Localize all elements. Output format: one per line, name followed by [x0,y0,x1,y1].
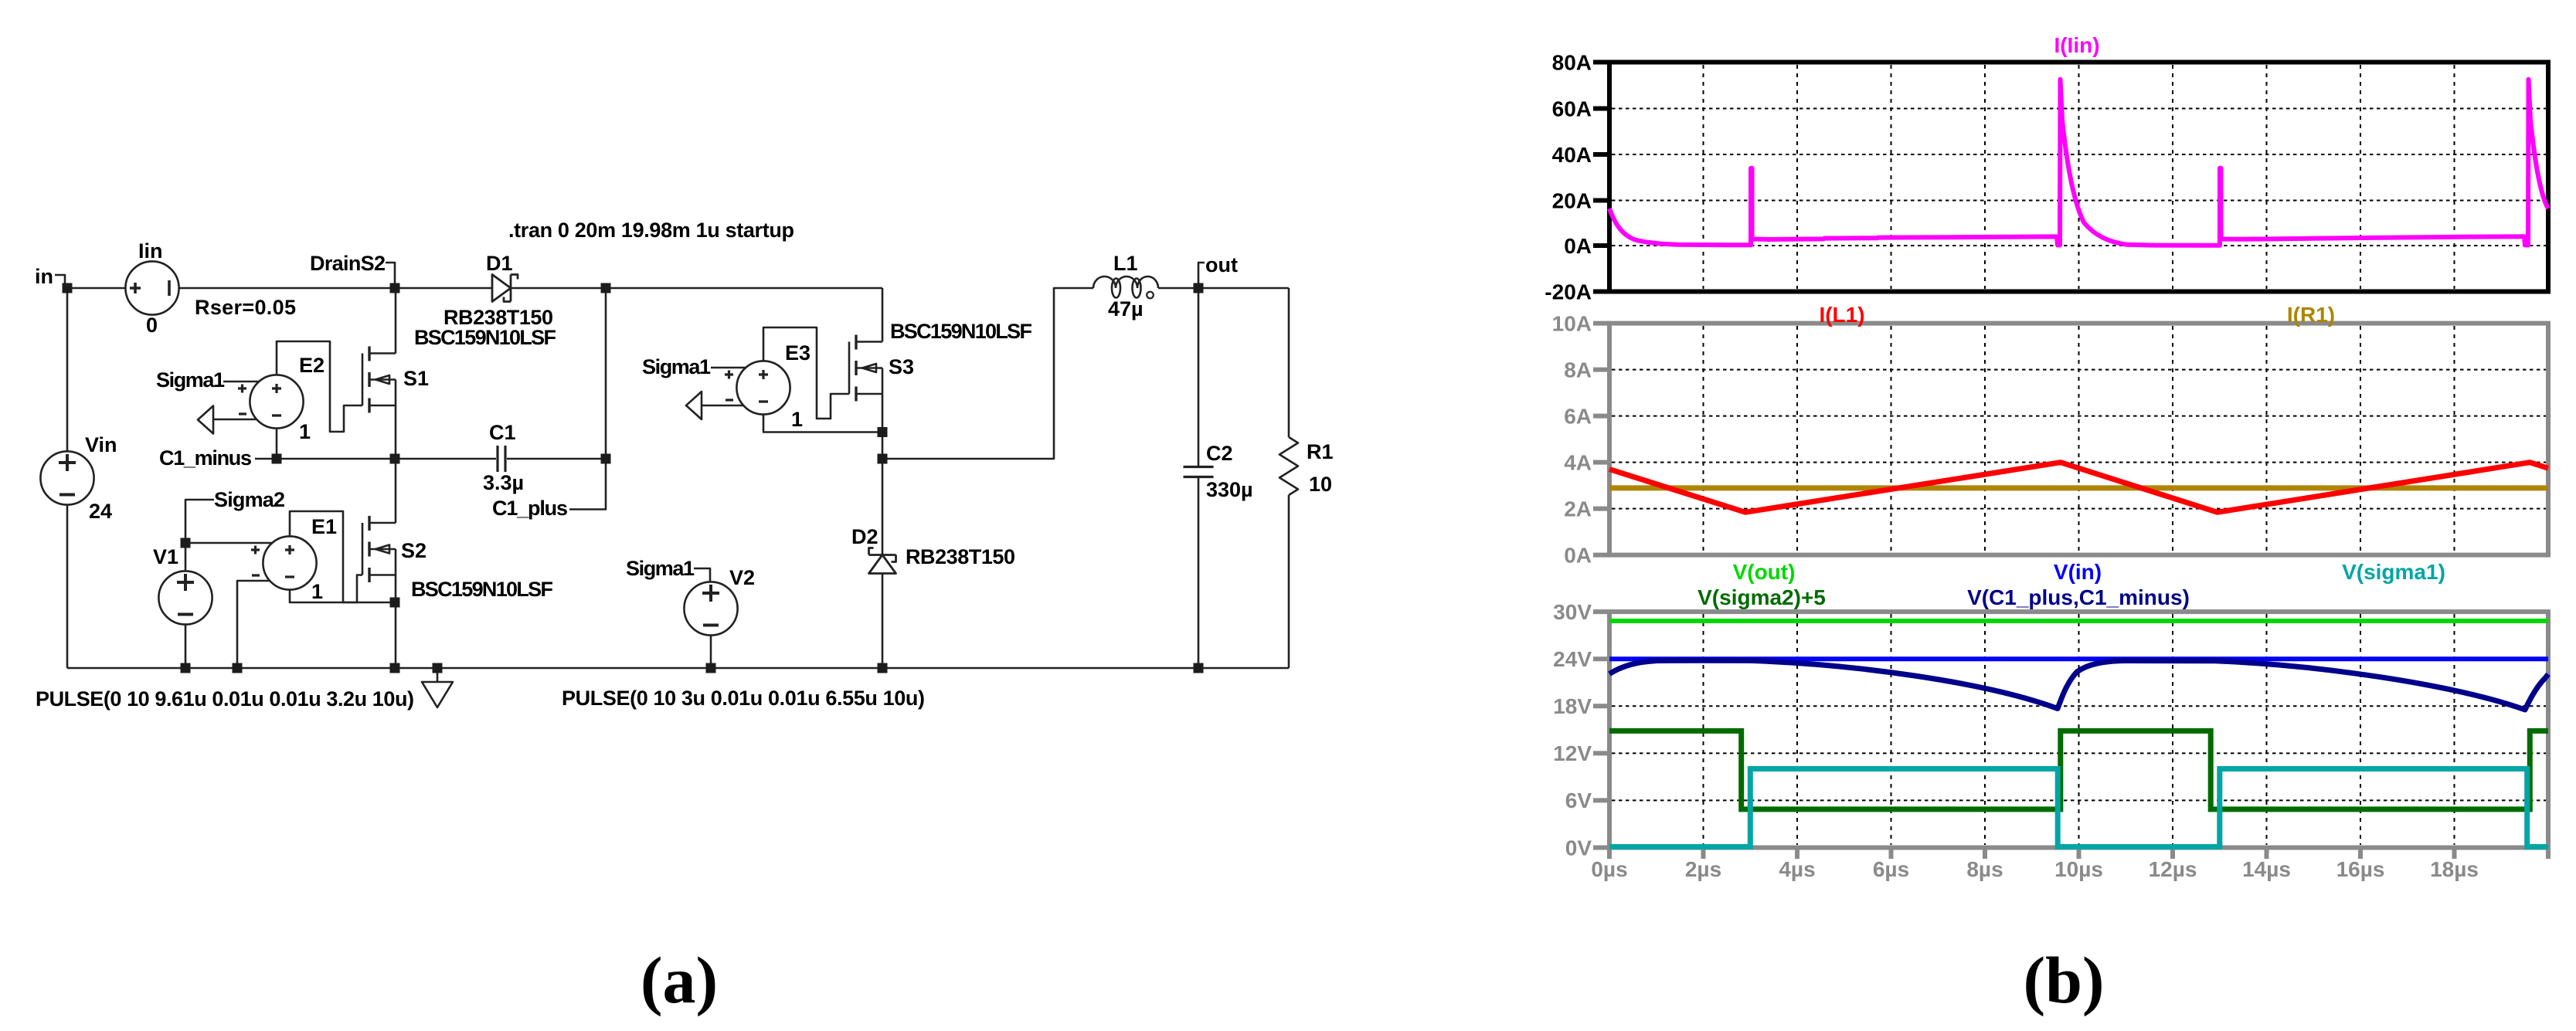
wire E3 minus control pin [702,405,743,407]
svg-text:E1: E1 [311,515,337,538]
svg-text:16µs: 16µs [2336,857,2385,881]
svg-text:V(C1_plus,C1_minus): V(C1_plus,C1_minus) [1967,585,2190,609]
pane 3 border [1609,612,2548,847]
pane 3 y ticks [1593,612,1609,847]
svg-text:330µ: 330µ [1206,478,1253,501]
svg-text:V1: V1 [153,545,178,568]
dependent source E3 [725,361,790,414]
wire S1 drain [395,288,397,354]
wire S3 drain to top rail [882,288,884,342]
svg-text:10A: 10A [1552,312,1592,336]
resistor R1 [1280,437,1298,495]
svg-text:-20A: -20A [1545,280,1592,304]
capacitor C1 [498,446,505,472]
svg-text:out: out [1205,253,1238,276]
wire D1 cathode to S3 drain corner [511,287,882,290]
svg-text:12µs: 12µs [2149,857,2197,881]
svg-text:Sigma1: Sigma1 [156,368,225,392]
wire Vin top lead [66,288,69,452]
voltage source V1 [158,571,212,624]
svg-text:Vin: Vin [85,433,117,456]
svg-text:Rser=0.05: Rser=0.05 [195,296,296,319]
capacitor C2 [1184,467,1214,477]
wire E2 output to S1 gate [277,341,362,432]
svg-text:18V: 18V [1553,694,1592,718]
svg-text:BSC159N10LSF: BSC159N10LSF [890,320,1032,343]
ground arrow E2 [198,406,213,434]
wire S3 source down to D2 [882,394,884,555]
wire S3 node to L1 [882,288,1093,459]
svg-text:12V: 12V [1553,741,1592,765]
svg-text:2µs: 2µs [1685,857,1721,881]
wire C1_plus vertical [569,288,606,510]
svg-text:in: in [35,265,53,288]
svg-text:E3: E3 [785,341,811,365]
voltage source V2 [684,582,737,635]
svg-text:RB238T150: RB238T150 [906,545,1015,568]
schematic text labels [35,219,1334,711]
pane 2 y ticks [1593,324,1609,555]
pane 1 border [1609,63,2548,292]
svg-text:PULSE(0 10 3u 0.01u 0.01u 6.55: PULSE(0 10 3u 0.01u 0.01u 6.55u 10u) [562,687,925,710]
trace I(R1) olive [1609,485,2548,490]
svg-text:I(Iin): I(Iin) [2054,33,2099,57]
wire S1 source to C1_minus node [395,405,397,459]
pane 1 y ticks [1593,63,1609,292]
svg-text:1: 1 [299,420,311,443]
voltage source Vin [40,451,93,504]
wire E1 bottom to S2 source [290,590,395,602]
trace V(sigma2)+5 dark green [1609,731,2548,809]
pane 2 border [1609,324,2548,555]
wire E1 output to S2 gate [290,511,362,602]
svg-text:24V: 24V [1553,647,1592,671]
svg-text:E2: E2 [299,354,325,377]
pane 3 x ticks [1609,848,2548,860]
wire L1 to out and R1 [1158,287,1289,290]
svg-text:DrainS2: DrainS2 [310,252,386,275]
svg-text:2A: 2A [1564,497,1592,521]
diode D2 [869,548,896,574]
wire S2 drain [395,459,397,523]
svg-text:0: 0 [146,314,158,337]
wire S2 source to ground rail [395,575,397,669]
wire top rail left [67,287,126,290]
svg-text:24: 24 [89,500,112,523]
diode D1 [492,275,518,302]
svg-text:30V: 30V [1553,600,1592,624]
svg-text:8µs: 8µs [1966,857,2003,881]
wire top rail to D1 [178,287,492,290]
svg-text:6µs: 6µs [1873,857,1909,881]
svg-text:10: 10 [1309,473,1332,496]
x axis labels [1591,857,2479,881]
wire R1 bottom lead [1288,495,1290,668]
svg-text:14µs: 14µs [2242,857,2291,881]
wire E3 output to S3 gate [763,327,849,419]
inductor L1 [1093,276,1158,298]
svg-text:1: 1 [791,408,803,431]
svg-text:0A: 0A [1564,544,1592,568]
svg-text:C2: C2 [1206,442,1233,465]
svg-text:8A: 8A [1564,358,1592,382]
svg-text:I(L1): I(L1) [1819,303,1864,327]
wire V1 top lead [185,543,187,571]
wire V2 bottom lead [710,636,712,668]
trace V(in) blue [1609,656,2548,661]
transistor S1 [362,347,396,413]
svg-text:D2: D2 [851,525,878,548]
trace V(C1_plus,C1_minus) navy [1609,660,2548,710]
svg-text:Sigma2: Sigma2 [214,488,285,511]
wire E3 plus control pin (Sigma1) [711,367,746,369]
svg-text:4µs: 4µs [1779,857,1815,881]
svg-text:C1_plus: C1_plus [492,497,568,520]
svg-text:.tran 0 20m 19.98m 1u startup: .tran 0 20m 19.98m 1u startup [508,219,794,242]
trace I(L1) red [1609,463,2548,513]
svg-text:3.3µ: 3.3µ [483,471,524,494]
svg-text:(a): (a) [641,943,718,1017]
svg-text:BSC159N10LSF: BSC159N10LSF [411,578,553,601]
wire E2 bottom lead [276,429,278,459]
wire E3 bottom to S3 source [763,415,882,432]
svg-text:BSC159N10LSF: BSC159N10LSF [414,326,556,349]
svg-text:0A: 0A [1564,234,1592,258]
svg-text:0µs: 0µs [1591,857,1627,881]
pane 2 y axis labels [1552,312,1592,568]
svg-text:20A: 20A [1552,189,1592,213]
node in: label hook [55,275,65,287]
wire R1 top lead [1288,288,1290,437]
wire C2 top lead [1198,288,1200,466]
svg-text:40A: 40A [1552,143,1592,167]
wire E2 plus control pin (Sigma1) [223,381,260,383]
pane 3 y axis labels [1553,600,1592,860]
pane 1 y axis labels [1545,51,1592,304]
svg-text:I(R1): I(R1) [2287,303,2335,327]
dashed gridlines pane 3 [1612,614,2546,845]
dependent source E2 [238,375,304,428]
svg-text:S3: S3 [889,355,914,378]
svg-text:(b): (b) [2023,943,2104,1017]
transistor S2 [362,516,396,582]
svg-text:0V: 0V [1565,836,1592,860]
svg-text:V2: V2 [729,566,755,589]
wire E2 minus control pin [213,419,257,421]
wire C2 bottom lead [1198,478,1200,668]
wire ground rail [67,667,1289,670]
svg-text:18µs: 18µs [2430,857,2479,881]
svg-text:PULSE(0 10 9.61u 0.01u 0.01u 3: PULSE(0 10 9.61u 0.01u 0.01u 3.2u 10u) [36,687,414,711]
node out label hook [1198,263,1205,288]
svg-text:80A: 80A [1552,51,1592,75]
svg-text:6V: 6V [1565,789,1592,812]
dashed gridlines pane 1 [1612,65,2546,289]
svg-text:C1_minus: C1_minus [159,446,252,470]
svg-text:V(in): V(in) [2054,560,2102,584]
svg-text:47µ: 47µ [1108,297,1144,320]
svg-text:1: 1 [311,580,323,603]
wire E1 plus control pin from Sigma2 node [185,542,273,544]
wire Vin bottom lead [66,504,69,668]
svg-text:V(sigma1): V(sigma1) [2342,560,2445,584]
node Sigma1 hook at V2 [694,568,710,582]
svg-text:V(out): V(out) [1733,560,1796,584]
wire C1_minus line [255,458,496,460]
trace V(sigma1) cyan [1609,769,2548,847]
svg-text:60A: 60A [1552,97,1592,121]
svg-text:C1: C1 [489,421,516,444]
trace V(out) green [1609,619,2548,623]
transistor S3 [849,335,882,402]
wire E1 minus control pin to ground [237,581,270,668]
svg-text:L1: L1 [1113,252,1138,275]
junction dots [63,283,1204,673]
svg-text:Iin: Iin [138,239,163,263]
dashed gridlines pane 2 [1612,326,2546,552]
svg-text:Sigma1: Sigma1 [626,557,695,580]
wire V1 bottom lead [185,625,187,668]
current source Iin [125,261,178,314]
svg-text:V(sigma2)+5: V(sigma2)+5 [1698,585,1826,609]
trace I(Iin) magenta [1609,80,2548,246]
svg-text:6A: 6A [1564,405,1592,429]
svg-text:S2: S2 [401,539,427,562]
svg-text:D1: D1 [486,252,513,275]
dependent source E1 [251,536,317,589]
svg-text:4A: 4A [1564,451,1592,475]
svg-text:S1: S1 [403,367,429,390]
wire D2 anode to ground rail [882,574,884,669]
wire C1 right to C1_plus [507,458,606,460]
svg-text:R1: R1 [1307,440,1334,463]
node Sigma2 label hook [185,500,214,543]
node DrainS2 hook [386,263,395,287]
svg-text:10µs: 10µs [2054,857,2103,881]
ground arrow E3 [686,392,702,419]
ground symbol [422,668,453,707]
svg-text:Sigma1: Sigma1 [642,355,711,378]
